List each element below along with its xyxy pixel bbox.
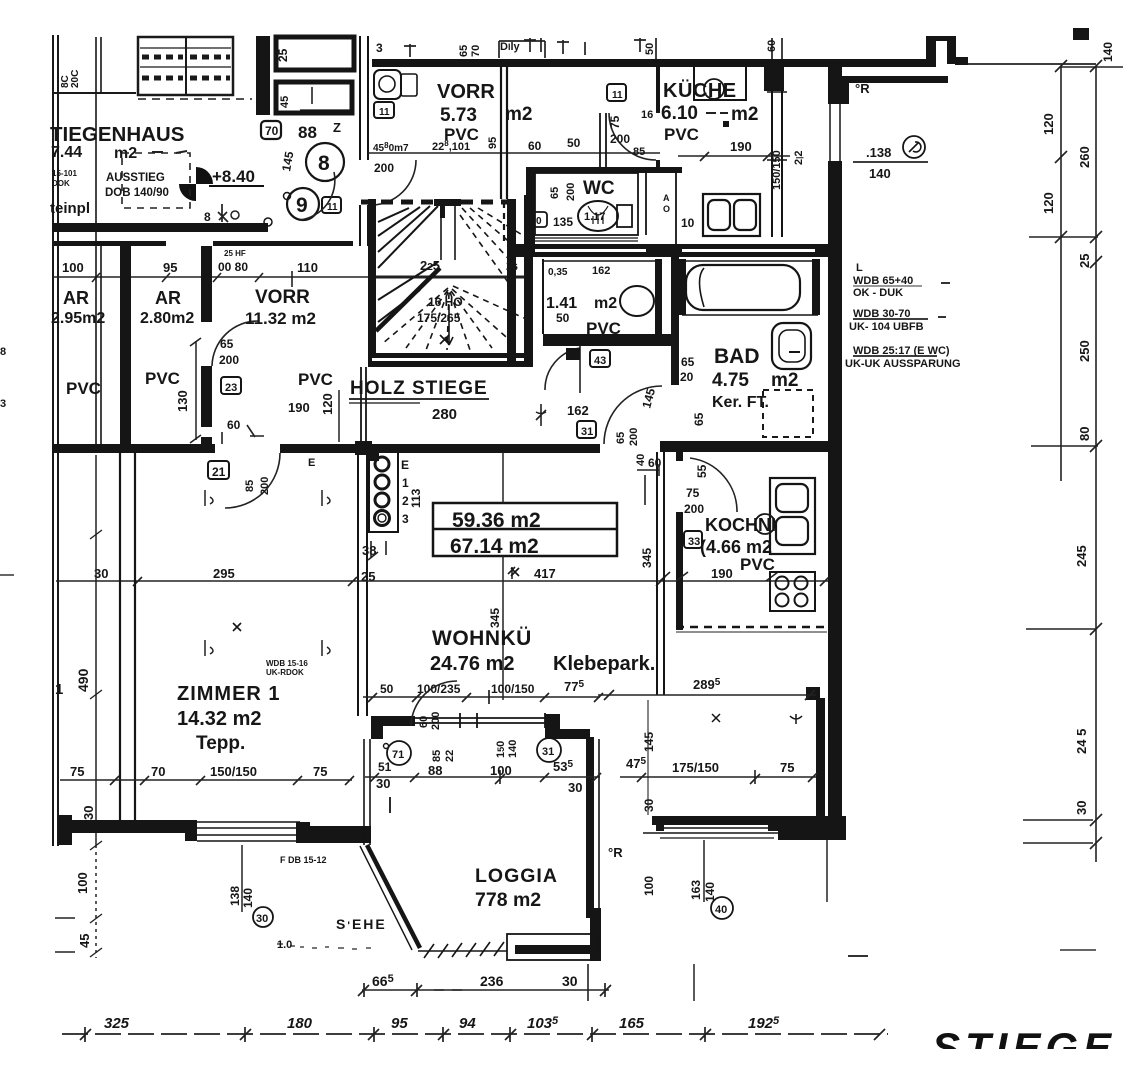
svg-text:75: 75 xyxy=(70,764,84,779)
wall loggia top right corner xyxy=(545,714,560,739)
door arc KUECHE entry xyxy=(609,113,656,160)
wire kueche right window wall xyxy=(767,59,787,237)
svg-text:120: 120 xyxy=(320,393,335,415)
wire dim 138 140 bottom left xyxy=(241,845,243,912)
node chimney shaft block top-middle xyxy=(256,36,354,115)
svg-text:150: 150 xyxy=(495,741,507,758)
wall BAD left xyxy=(671,257,679,385)
wire VORR right wall xyxy=(501,67,507,244)
svg-text:120: 120 xyxy=(1041,192,1056,214)
svg-text:O: O xyxy=(663,204,670,214)
svg-text:14.32 m2: 14.32 m2 xyxy=(177,708,262,730)
node bathtub xyxy=(686,265,800,310)
node survey flag symbol xyxy=(179,167,213,201)
wall BAD bottom xyxy=(660,441,838,452)
wall 1.41 bottom xyxy=(543,334,678,346)
wall KUECHE left xyxy=(656,67,660,113)
wall top-left short xyxy=(52,92,136,94)
door arc loggia door into wohnku xyxy=(411,681,457,726)
svg-text:50: 50 xyxy=(567,136,581,150)
svg-text:130: 130 xyxy=(175,390,190,412)
node loggia bottom window xyxy=(507,934,598,960)
svg-text:180: 180 xyxy=(287,1015,313,1032)
svg-text:100: 100 xyxy=(642,876,656,896)
svg-text:WOHNKÜ: WOHNKÜ xyxy=(432,627,532,650)
svg-text:75: 75 xyxy=(608,115,622,129)
svg-text:190: 190 xyxy=(711,566,733,581)
svg-text:325: 325 xyxy=(104,1015,130,1032)
wall tub niche sides xyxy=(679,259,686,315)
svg-text:8: 8 xyxy=(204,210,211,224)
svg-text:Ker. FT.: Ker. FT. xyxy=(712,394,769,411)
wire long dim line y581 xyxy=(56,580,828,582)
svg-text:65: 65 xyxy=(549,187,561,199)
svg-text:200: 200 xyxy=(430,712,442,730)
svg-text:65: 65 xyxy=(220,337,234,351)
wire bottom dim chain row A xyxy=(362,989,609,991)
node fridge rect kueche top xyxy=(694,64,746,100)
wall right room bottom with window xyxy=(652,816,825,825)
wall TIEGENHAUS bottom thick xyxy=(52,223,268,232)
node tick marks in right room xyxy=(712,714,802,724)
svg-text:3: 3 xyxy=(376,41,383,55)
wire loggia bottom hatch xyxy=(418,942,507,958)
wire thin line continuing right to dim area xyxy=(968,63,1096,65)
wire isolated dash right bottom xyxy=(1060,949,1096,951)
svg-text:60: 60 xyxy=(528,139,542,153)
svg-text:162: 162 xyxy=(592,265,610,277)
svg-text:30: 30 xyxy=(81,806,96,820)
wall wohnku right wall double xyxy=(657,452,664,695)
wall outer right of building xyxy=(828,59,842,104)
wire stair treads left flight xyxy=(376,206,440,331)
svg-text:1.0: 1.0 xyxy=(277,939,292,951)
wire dim row y780 zimmer xyxy=(60,779,352,781)
svg-text:25: 25 xyxy=(276,48,290,62)
svg-text:100: 100 xyxy=(75,872,90,894)
node cooker strip E123 xyxy=(369,452,398,532)
door box 70 xyxy=(261,121,281,139)
svg-text:22: 22 xyxy=(444,750,456,762)
svg-text:70: 70 xyxy=(470,45,482,57)
wire bottom dim chain row B xyxy=(62,1033,888,1035)
svg-text:11: 11 xyxy=(327,202,338,213)
svg-text:345: 345 xyxy=(488,608,502,628)
svg-text:163: 163 xyxy=(689,880,703,900)
wire vline dim through wohnku xyxy=(502,452,504,503)
node x mark bottom stairs xyxy=(440,335,449,344)
svg-text:145: 145 xyxy=(642,732,656,752)
svg-text:85: 85 xyxy=(431,750,443,762)
svg-text:150/150: 150/150 xyxy=(771,150,783,190)
svg-text:+8.40: +8.40 xyxy=(212,167,255,186)
svg-text:175/150: 175/150 xyxy=(672,760,719,775)
svg-text:L: L xyxy=(856,262,863,274)
svg-text:236: 236 xyxy=(480,973,504,989)
svg-text:1: 1 xyxy=(402,476,409,490)
svg-text:°R: °R xyxy=(608,845,623,860)
svg-text:30: 30 xyxy=(256,913,268,925)
wire stair center divider lines xyxy=(441,206,455,260)
svg-text:2|2: 2|2 xyxy=(793,151,805,166)
svg-text:43: 43 xyxy=(594,355,606,367)
svg-text:31: 31 xyxy=(581,426,593,438)
svg-text:60: 60 xyxy=(766,40,778,52)
svg-text:200: 200 xyxy=(219,353,239,367)
svg-text:80: 80 xyxy=(1077,427,1092,441)
svg-text:295: 295 xyxy=(213,566,235,581)
node toilet xyxy=(578,201,618,231)
svg-text:Z: Z xyxy=(333,120,341,135)
wall corridor double band xyxy=(516,244,835,249)
svg-text:10: 10 xyxy=(681,216,695,230)
svg-text:UK-UK AUSSPARUNG: UK-UK AUSSPARUNG xyxy=(845,358,961,370)
node dashed square shower xyxy=(763,390,813,437)
svg-text:11: 11 xyxy=(612,90,623,101)
svg-text:8: 8 xyxy=(0,346,6,358)
svg-text:4580m7: 4580m7 xyxy=(373,141,409,154)
node washbasin BAD xyxy=(772,323,811,369)
svg-text:85: 85 xyxy=(633,146,645,158)
door arc ZIMMER entrance xyxy=(225,453,280,508)
door box 23 xyxy=(221,377,241,394)
svg-text:VORR: VORR xyxy=(255,287,310,308)
wire kochn bottom dashed xyxy=(676,626,827,629)
svg-text:Klebepark.: Klebepark. xyxy=(553,653,655,675)
svg-text:59.36 m2: 59.36 m2 xyxy=(452,509,541,532)
svg-text:60: 60 xyxy=(227,418,241,432)
node small circle marks near 9 xyxy=(284,193,291,200)
svg-text:417: 417 xyxy=(534,566,556,581)
wire small tick inside loggia xyxy=(389,797,391,813)
svg-text:40: 40 xyxy=(635,454,647,466)
svg-text:.138: .138 xyxy=(866,145,891,160)
svg-text:55: 55 xyxy=(695,464,709,478)
svg-text:200: 200 xyxy=(628,428,640,446)
svg-text:65: 65 xyxy=(615,432,627,444)
svg-text:4.75: 4.75 xyxy=(712,370,749,391)
svg-text:190: 190 xyxy=(730,139,752,154)
node area box 59.36 67.14 xyxy=(433,503,617,556)
node stairs HOLZ STIEGE block xyxy=(361,195,533,367)
svg-text:33: 33 xyxy=(688,536,700,548)
svg-text:E: E xyxy=(308,457,315,469)
svg-text:45: 45 xyxy=(77,934,92,948)
svg-text:AR: AR xyxy=(155,288,181,308)
wall WC left xyxy=(526,167,535,257)
wire stair treads right flight dashed xyxy=(460,208,524,285)
svg-text:200: 200 xyxy=(684,502,704,516)
svg-text:(4.66 m2: (4.66 m2 xyxy=(700,537,772,557)
node kochn sink double vertical xyxy=(770,478,815,554)
svg-text:E: E xyxy=(401,458,409,472)
node circle 71 xyxy=(387,741,411,765)
svg-text:F DB 15-12: F DB 15-12 xyxy=(280,855,327,865)
svg-text:9: 9 xyxy=(296,194,308,217)
door arc KOCHN xyxy=(690,458,737,512)
wall main wall center part after door xyxy=(280,444,600,453)
node kochn cooktop 4 burners xyxy=(770,572,815,611)
svg-text:PVC: PVC xyxy=(66,379,101,398)
door arc VORR entry xyxy=(371,160,416,205)
svg-text:75: 75 xyxy=(780,760,794,775)
svg-text:75: 75 xyxy=(686,486,700,500)
wire kueche dim line xyxy=(678,155,790,157)
svg-text:16: 16 xyxy=(641,109,653,121)
node sink in VORR top left xyxy=(374,70,417,99)
svg-text:7.44: 7.44 xyxy=(51,144,82,161)
door arc into TIEGENHAUS xyxy=(300,172,335,220)
node black joint left of box43 xyxy=(566,348,580,360)
svg-text:KÜCHE: KÜCHE xyxy=(663,79,737,102)
svg-text:24 5: 24 5 xyxy=(1074,729,1089,754)
wire right chain extension ticks xyxy=(1023,60,1123,849)
svg-text:778 m2: 778 m2 xyxy=(475,889,541,911)
wire loggia left thin double xyxy=(364,739,370,845)
svg-text:1: 1 xyxy=(55,681,63,698)
svg-text:ZIMMER 1: ZIMMER 1 xyxy=(177,683,281,705)
svg-text:AUSSTIEG: AUSSTIEG xyxy=(106,172,165,184)
wire dim line y776 across xyxy=(365,776,600,778)
svg-text:50: 50 xyxy=(380,682,394,696)
svg-text:0: 0 xyxy=(536,216,542,227)
svg-text:21: 21 xyxy=(212,465,226,479)
svg-text:DOK: DOK xyxy=(52,179,70,188)
svg-text:110: 110 xyxy=(297,260,318,275)
svg-text:PVC: PVC xyxy=(664,125,699,144)
svg-text:AR: AR xyxy=(63,288,89,308)
svg-text:A: A xyxy=(663,193,670,203)
svg-text:m2: m2 xyxy=(505,104,532,125)
wire right dim chain inner line xyxy=(1060,67,1062,481)
wire corridor wall lines right of VORR xyxy=(599,113,601,167)
wall zimmer bottom with window xyxy=(58,815,72,845)
svg-text:250: 250 xyxy=(1077,340,1092,362)
svg-text:345: 345 xyxy=(640,548,654,568)
svg-text:30: 30 xyxy=(376,776,390,791)
svg-text:94: 94 xyxy=(459,1015,476,1032)
door box 11 kueche xyxy=(607,84,626,101)
node circle 30 xyxy=(253,907,273,927)
svg-text:31: 31 xyxy=(542,746,554,758)
svg-text:VORR: VORR xyxy=(437,81,495,103)
wall main wall right part to outer xyxy=(660,441,838,452)
wire right dim chain outer line xyxy=(1095,66,1097,862)
door box 11 in VORR xyxy=(374,102,394,118)
svg-text:65: 65 xyxy=(458,45,470,57)
wire dim vline VORR xyxy=(338,390,340,442)
svg-text:OK - DUK: OK - DUK xyxy=(853,287,903,299)
svg-text:DIly: DIly xyxy=(500,41,521,53)
svg-text:PVC: PVC xyxy=(298,370,333,389)
svg-text:45: 45 xyxy=(279,96,291,108)
wire top main wall of building xyxy=(372,59,932,67)
svg-text:0,35: 0,35 xyxy=(548,267,568,278)
node storage stair box top-left xyxy=(138,37,233,95)
svg-text:5.73: 5.73 xyxy=(440,105,477,126)
svg-text:51: 51 xyxy=(378,760,392,774)
svg-text:WDB 15-16: WDB 15-16 xyxy=(266,659,308,668)
svg-text:200: 200 xyxy=(610,132,630,146)
wire dim vline x96 with 490 xyxy=(55,455,330,958)
wire dashed line under storage stairs xyxy=(138,98,252,100)
wall loggia diagonal xyxy=(367,845,420,948)
door box 11 right of circle 9 xyxy=(322,197,341,213)
svg-text:85: 85 xyxy=(244,480,256,492)
svg-text:100: 100 xyxy=(490,763,512,778)
svg-text:m2: m2 xyxy=(771,370,798,391)
wire loggia top window double doors xyxy=(415,713,545,728)
node circle 9 xyxy=(287,188,319,220)
svg-text:490: 490 xyxy=(75,668,91,692)
svg-text:m2: m2 xyxy=(594,295,617,312)
svg-text:70: 70 xyxy=(265,124,279,138)
svg-text:67.14 m2: 67.14 m2 xyxy=(450,535,539,558)
door box 43 xyxy=(590,350,610,367)
node x mark center zimmer xyxy=(233,568,519,631)
svg-text:260: 260 xyxy=(1077,146,1092,168)
svg-text:KOCHNI: KOCHNI xyxy=(705,515,776,535)
svg-text:100: 100 xyxy=(62,260,84,275)
svg-text:95: 95 xyxy=(391,1015,408,1032)
svg-text:2.95m2: 2.95m2 xyxy=(51,310,105,327)
svg-text:°R: °R xyxy=(855,81,870,96)
svg-text:00 80: 00 80 xyxy=(218,260,248,274)
wall bottom right corner chunk xyxy=(778,816,846,840)
svg-text:100/150: 100/150 xyxy=(491,682,535,696)
door arc AR2.80 to VORR xyxy=(212,321,258,366)
svg-text:1.17: 1.17 xyxy=(584,211,605,223)
svg-text:30: 30 xyxy=(568,780,582,795)
node black tick top right xyxy=(1073,28,1089,40)
svg-text:WC: WC xyxy=(583,178,615,199)
svg-text:LOGGIA: LOGGIA xyxy=(475,865,558,887)
svg-text:70: 70 xyxy=(151,764,165,779)
svg-text:162: 162 xyxy=(567,403,589,418)
wall WC block top xyxy=(526,167,682,173)
wall main corridor-zimmer wall y445 left part xyxy=(52,444,215,453)
svg-text:65: 65 xyxy=(681,355,695,369)
svg-text:3: 3 xyxy=(0,398,6,410)
wire left outer wall double lines xyxy=(52,35,54,846)
svg-text:BAD: BAD xyxy=(714,345,760,368)
svg-text:1.41: 1.41 xyxy=(546,295,577,312)
wall top-right notch xyxy=(926,36,936,67)
wire wall lines stair to corridor xyxy=(360,367,362,444)
svg-text:HOLZ STIEGE: HOLZ STIEGE xyxy=(350,378,488,399)
wall AR top with door gap xyxy=(54,241,166,246)
svg-text:m2: m2 xyxy=(731,104,758,125)
wall loggia right xyxy=(586,737,594,913)
svg-text:140: 140 xyxy=(507,740,519,758)
svg-text:40: 40 xyxy=(715,904,727,916)
wire faint dots row xyxy=(277,944,371,949)
wire dim line y153 through VORR xyxy=(368,152,660,154)
svg-text:50: 50 xyxy=(644,43,656,55)
svg-text:190: 190 xyxy=(288,400,310,415)
node circle 8 xyxy=(306,143,344,181)
svg-text:16 HO: 16 HO xyxy=(428,295,463,309)
wall ZIMMER left double xyxy=(120,453,135,833)
wire wall between landing and VORR room xyxy=(360,36,368,246)
svg-text:140: 140 xyxy=(241,888,255,908)
svg-text:TIEGENHAUS: TIEGENHAUS xyxy=(50,123,184,146)
node basin in 1.41 xyxy=(620,286,654,316)
svg-text:150/150: 150/150 xyxy=(210,764,257,779)
svg-text:3: 3 xyxy=(402,512,409,526)
svg-text:30: 30 xyxy=(1074,801,1089,815)
svg-text:UK- 104 UBFB: UK- 104 UBFB xyxy=(849,321,924,333)
svg-text:50: 50 xyxy=(556,311,570,325)
svg-text:280: 280 xyxy=(432,406,457,423)
wire WC inner lines xyxy=(535,173,676,244)
svg-text:200: 200 xyxy=(565,183,577,201)
node black pier kueche top right xyxy=(764,64,784,91)
node circle 31 xyxy=(537,738,561,762)
door box 33 xyxy=(684,531,702,548)
node dashed box around AUSSTIEG xyxy=(122,153,190,208)
svg-text:95: 95 xyxy=(487,137,499,149)
wire dim line y777 right part xyxy=(620,776,816,778)
wall WOHNKU left wall double xyxy=(358,452,367,716)
svg-text:2: 2 xyxy=(402,494,409,508)
svg-text:65: 65 xyxy=(692,412,706,426)
wall right room inner east wall xyxy=(816,698,825,825)
node circle 40 bottom xyxy=(711,897,733,919)
svg-text:175/265: 175/265 xyxy=(417,311,461,325)
wire stair winder treads dashed bottom xyxy=(382,286,524,350)
svg-text:113: 113 xyxy=(409,488,423,508)
wall 1.41 room left xyxy=(542,259,544,334)
svg-text:26: 26 xyxy=(506,259,518,273)
svg-text:200: 200 xyxy=(259,477,271,495)
svg-text:120: 120 xyxy=(1041,113,1056,135)
svg-text:24.76 m2: 24.76 m2 xyxy=(430,653,515,675)
svg-text:30: 30 xyxy=(562,973,578,989)
svg-text:15-101: 15-101 xyxy=(52,169,77,178)
door arc corridor small xyxy=(545,348,580,390)
svg-text:25: 25 xyxy=(1077,254,1092,268)
svg-text:165: 165 xyxy=(619,1015,645,1032)
svg-text:20C: 20C xyxy=(70,70,81,88)
wire stair arrow xyxy=(445,305,453,345)
svg-text:75: 75 xyxy=(313,764,327,779)
svg-text:20: 20 xyxy=(680,370,694,384)
wall loggia top left chunk xyxy=(371,716,383,739)
wire window marks above top wall left xyxy=(404,38,782,59)
svg-text:245: 245 xyxy=(1074,545,1089,567)
svg-text:DOB 140/90: DOB 140/90 xyxy=(105,187,169,199)
wall KOCHN left xyxy=(676,452,683,461)
svg-text:30: 30 xyxy=(642,798,656,812)
svg-text:88: 88 xyxy=(298,123,317,142)
node kueche sink double basin xyxy=(703,194,760,236)
node circle 40 level xyxy=(903,136,925,158)
svg-text:71: 71 xyxy=(392,749,404,761)
svg-text:138: 138 xyxy=(228,886,242,906)
svg-text:135: 135 xyxy=(553,215,573,229)
door box 31 xyxy=(577,421,596,438)
wire AR rooms inner walls xyxy=(96,37,212,447)
svg-text:S'EHE: S'EHE xyxy=(336,916,387,932)
wire dim row under wall xyxy=(53,271,533,287)
wire dim lines under right room xyxy=(826,840,828,902)
wire small dashes right of m2 xyxy=(152,151,187,153)
svg-text:8: 8 xyxy=(318,152,330,175)
door box 21 xyxy=(208,461,229,479)
svg-text:teinpl: teinpl xyxy=(50,200,90,217)
svg-text:140: 140 xyxy=(1101,42,1115,62)
